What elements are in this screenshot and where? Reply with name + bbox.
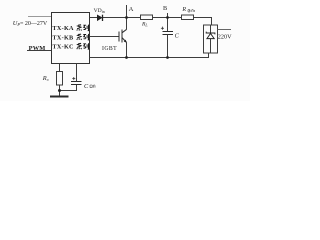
svg-text:R: R (181, 7, 186, 13)
svg-text:RL: RL (141, 21, 148, 27)
svg-text:A: A (129, 6, 134, 13)
svg-text:IGBT: IGBT (102, 46, 117, 52)
svg-text:C: C (175, 33, 180, 40)
svg-text:TX-KC: TX-KC (52, 44, 73, 51)
svg-text:TX-KA: TX-KA (52, 25, 74, 32)
svg-text:UP= 20—27V: UP= 20—27V (13, 20, 48, 27)
svg-text:220V: 220V (218, 34, 232, 41)
svg-text:TX-KB: TX-KB (52, 34, 73, 41)
svg-text:PWM: PWM (29, 45, 46, 52)
svg-text:C: C (84, 83, 89, 90)
svg-text:VDin: VDin (94, 8, 105, 14)
svg-text:Ro: Ro (42, 75, 49, 82)
svg-text:B: B (163, 5, 167, 12)
